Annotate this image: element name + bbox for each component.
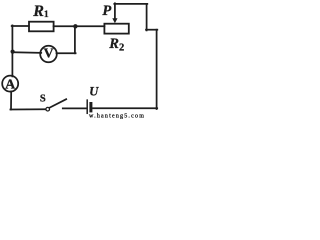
svg-text:P: P <box>102 3 111 19</box>
svg-text:A: A <box>5 78 16 93</box>
svg-text:V: V <box>43 47 53 62</box>
svg-text:S: S <box>40 94 46 105</box>
svg-text:U: U <box>89 85 99 99</box>
svg-text:w.hanteng5.com: w.hanteng5.com <box>89 113 145 119</box>
